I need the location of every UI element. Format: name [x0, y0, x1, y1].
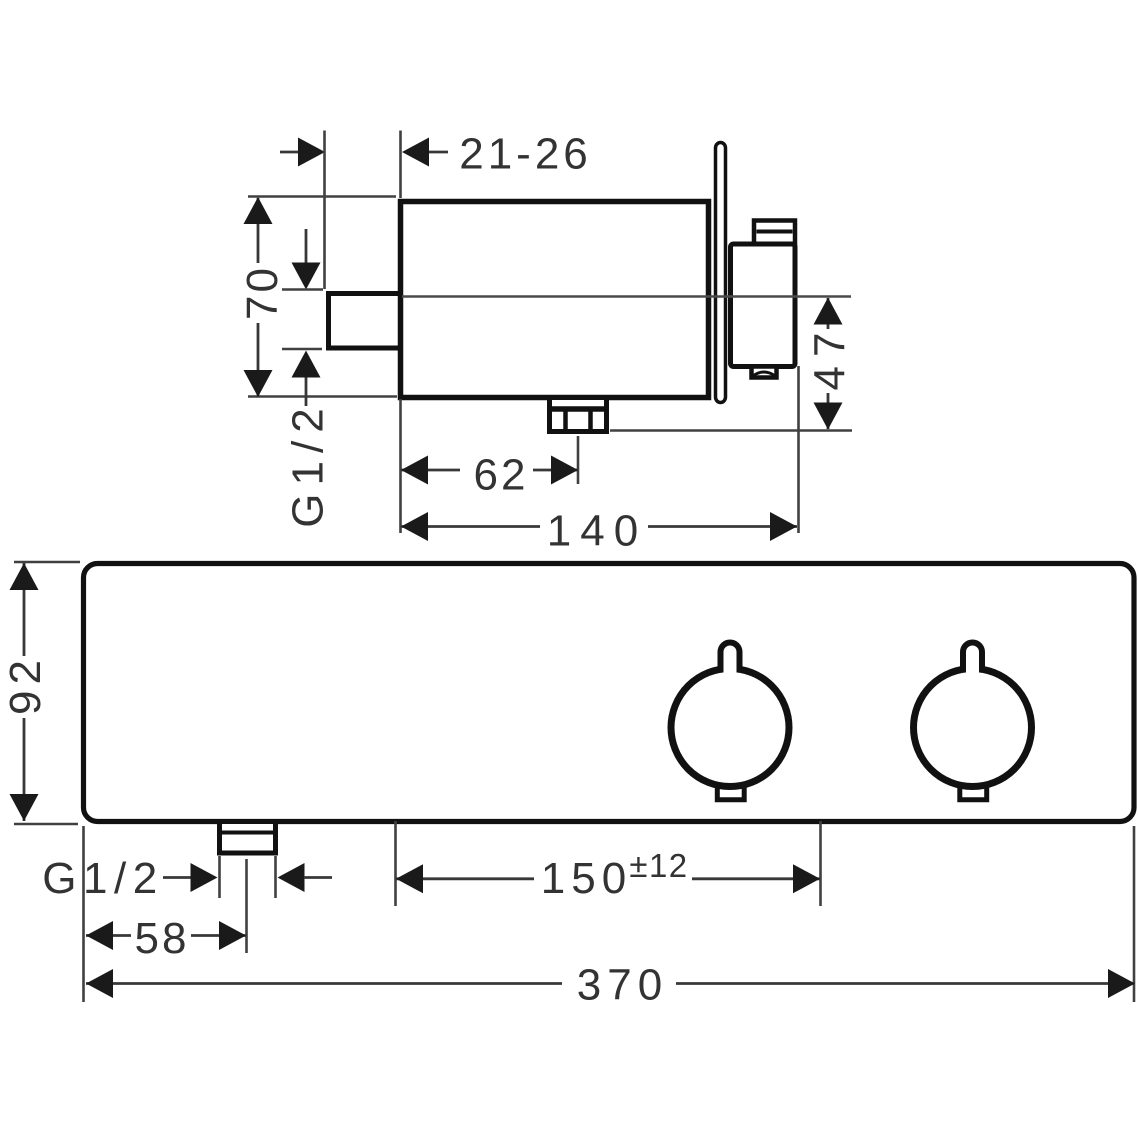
svg-text:G1/2: G1/2 [42, 854, 163, 903]
extension line below body left edge [399, 399, 402, 533]
dimension text 92 (rotated) [1, 654, 50, 715]
front panel bar [84, 564, 1135, 822]
dimension 21-26 arrow [402, 138, 429, 167]
G1/2 arrow right [278, 863, 305, 892]
svg-text:±12: ±12 [629, 847, 688, 884]
dimension 150 extension left [394, 821, 397, 906]
nut inner horizontal line [549, 406, 607, 412]
knob 1 circle [671, 669, 789, 787]
label G1/2 (rotated, top view) [284, 400, 333, 527]
centerline of valve [402, 295, 851, 297]
extension line right of connector [797, 366, 800, 533]
knob 1 nub channel [724, 648, 737, 674]
svg-text:G1/2: G1/2 [284, 400, 333, 527]
svg-text:21-26: 21-26 [459, 130, 592, 179]
dimension 140 text gap [540, 505, 648, 548]
knob 1 bottom tab [717, 786, 744, 800]
svg-text:47: 47 [806, 324, 855, 391]
stub bottom arrow [292, 351, 321, 378]
wall plate (escutcheon, capsule) [716, 143, 726, 403]
dimension 370 line [86, 982, 1134, 985]
svg-text:62: 62 [474, 451, 529, 500]
stub bottom extension line [282, 348, 322, 351]
dimension text 47 (rotated) [806, 324, 855, 391]
dimension 70 text gap [242, 263, 276, 323]
wall stub (G1/2 outlet, left protrusion) [329, 294, 402, 349]
stub top extension line [282, 288, 323, 291]
bottom tab arc [754, 372, 775, 376]
dimension 62 text gap [460, 449, 533, 491]
extension line at body front face [399, 131, 402, 199]
dimension 70 line [257, 198, 260, 396]
connector block (behind-wall body) [731, 244, 796, 367]
dimension 47 line [827, 298, 830, 429]
svg-text:92: 92 [1, 654, 50, 715]
G1/2 leader left [163, 876, 191, 879]
svg-text:140: 140 [547, 507, 647, 556]
svg-text:370: 370 [577, 961, 668, 1010]
dimension 150 extension right [819, 821, 822, 906]
dimension 150 text gap [534, 851, 692, 901]
knob 2 circle [914, 669, 1032, 787]
front G1/2 nut [220, 822, 276, 854]
knob 2 nub channel [966, 648, 979, 674]
bottom tab of connector [752, 367, 777, 378]
knob 2 nub [963, 643, 982, 673]
nut facet line right [588, 409, 593, 429]
bottom hex nut (top view) [550, 398, 607, 432]
front nut centerline [245, 859, 248, 953]
dimension 370 extension right [1133, 826, 1136, 1002]
svg-text:70: 70 [238, 265, 287, 320]
dimension 150 line [396, 877, 820, 880]
wall reference arrow (top left) [280, 151, 299, 154]
dimension 92 extension top [14, 561, 80, 564]
dimension 370 text gap [562, 962, 676, 1005]
knob 2 bottom tab [960, 786, 987, 800]
extension line at stub tip [323, 131, 326, 290]
dimension 62 line [401, 469, 578, 472]
dimension 92 extension bottom [14, 823, 78, 826]
valve body (top view) [401, 202, 709, 398]
nut facet line left [563, 409, 568, 429]
extension line below nut center [577, 436, 580, 484]
front nut extension lines [218, 856, 221, 898]
svg-text:150: 150 [541, 854, 632, 903]
dimension 140 line [401, 525, 797, 528]
dimension 58 text gap [131, 914, 191, 957]
dimension text 70 (rotated) [238, 265, 287, 320]
dimension 70 extension bottom [248, 395, 397, 398]
dimension 92 text gap [6, 656, 43, 718]
dimension 58 extension left [82, 826, 85, 1002]
dimension 70 extension top [248, 195, 396, 198]
dimension 92 line [23, 563, 26, 821]
top tab of connector [754, 221, 795, 247]
dimension 58 line [86, 934, 246, 937]
knob 1 nub [721, 643, 740, 673]
svg-text:58: 58 [135, 914, 190, 963]
dimension 47 text gap [810, 329, 847, 393]
stub top arrow [305, 229, 308, 263]
top tab divider line [757, 230, 793, 234]
front nut divider [222, 831, 273, 835]
47 bottom extension line [610, 429, 852, 432]
